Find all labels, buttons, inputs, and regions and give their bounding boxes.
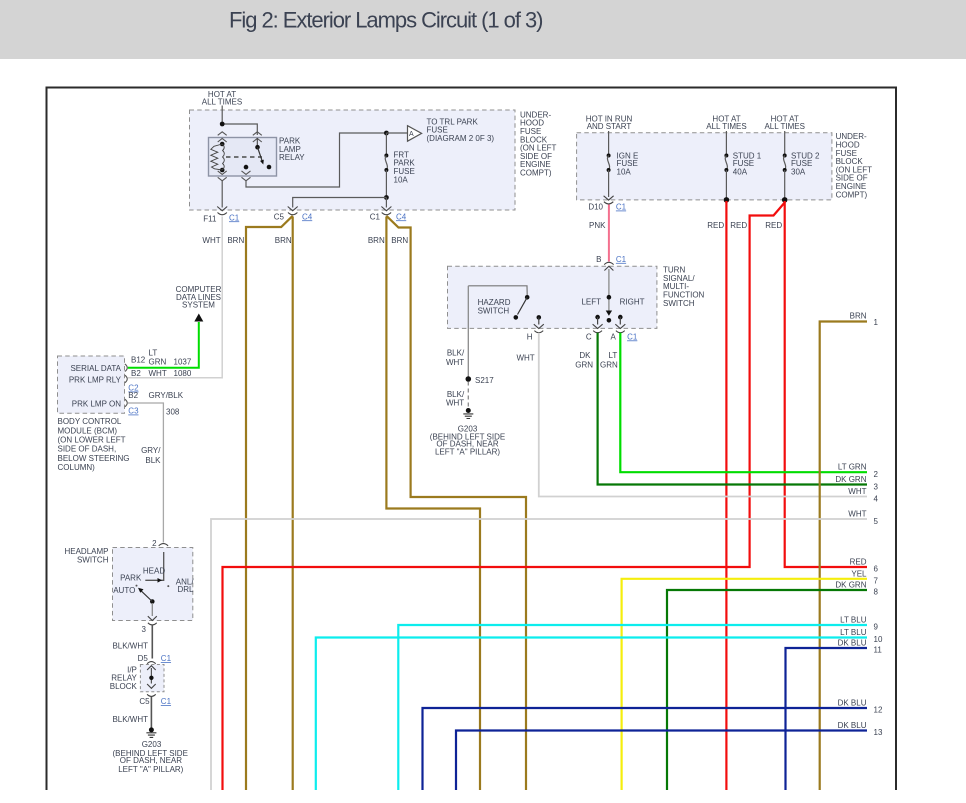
svg-text:40A: 40A [733,168,748,177]
svg-text:WHT: WHT [149,369,167,378]
wire labels WHT BRN BRN BRN BRN [202,236,408,245]
BCM pin PRK LMP ON [72,399,127,408]
svg-text:12: 12 [874,706,883,715]
svg-text:SYSTEM: SYSTEM [182,301,215,310]
connector C A C1 exits [586,331,638,342]
node STUD1 junction [724,197,730,203]
svg-text:DRL: DRL [178,585,195,594]
ground G203 (I/P) [112,727,187,774]
headlamp switch internals [113,552,194,621]
wire WHT H to row 4 [516,333,867,497]
svg-text:PARK: PARK [120,574,142,583]
wire relay output to fuse junction [246,133,386,187]
row 6 label [850,558,879,574]
svg-text:C1: C1 [161,654,172,663]
wire WHT F11 to BCM [128,217,222,378]
wire DK BLU row 13 [456,721,883,790]
svg-text:DK GRN: DK GRN [835,581,866,590]
headlamp switch box [113,548,193,621]
svg-text:DK BLU: DK BLU [838,699,867,708]
svg-text:BLK/WHT: BLK/WHT [112,642,148,651]
svg-text:RED: RED [730,221,747,230]
fuse F2: FRT PARK FUSE 10A [384,133,415,198]
svg-text:COMPT): COMPT) [836,190,868,199]
row 2 label [838,463,879,480]
svg-text:WHT: WHT [202,236,220,245]
wire DK BLU row 11 [786,639,883,791]
svg-text:ALL TIMES: ALL TIMES [202,97,242,106]
svg-text:PRK LMP ON: PRK LMP ON [72,399,121,408]
BCM pin SERIAL DATA [70,364,127,373]
turn signal switch box [448,266,657,328]
svg-text:C1: C1 [616,255,627,264]
svg-text:10A: 10A [394,175,409,184]
svg-text:GRN: GRN [149,358,167,367]
underhood fuse block 2 box [577,133,832,200]
svg-text:BODY CONTROL: BODY CONTROL [58,417,122,426]
svg-text:WHT: WHT [848,487,866,496]
wire hazard common down [446,286,468,379]
wire BLK/WHT dashed to ground [446,382,468,409]
svg-text:1037: 1037 [174,358,192,367]
svg-text:RED: RED [765,221,782,230]
connector C5 C4 exit [274,207,313,222]
svg-text:BRN: BRN [227,236,244,245]
svg-text:LEFT "A" PILLAR): LEFT "A" PILLAR) [435,447,500,456]
svg-text:LEFT: LEFT [581,298,601,307]
relay mechanical link (dashed) [226,156,262,158]
svg-text:(DIAGRAM 2 0F 3): (DIAGRAM 2 0F 3) [427,134,495,143]
svg-text:C4: C4 [302,212,313,221]
svg-text:SERIAL DATA: SERIAL DATA [70,364,121,373]
svg-text:9: 9 [874,623,879,632]
title bar [0,0,966,59]
svg-text:11: 11 [874,646,883,655]
svg-text:D5: D5 [138,654,149,663]
connector C1 C4 exit [370,207,407,222]
connector B C1 entry [596,255,627,265]
label I/P RELAY BLOCK [110,665,138,691]
svg-text:10A: 10A [617,168,632,177]
node junction below FRT PARK FUSE [293,195,389,207]
svg-text:SIDE OF DASH,: SIDE OF DASH, [58,445,117,454]
svg-text:1: 1 [874,318,879,327]
wire RED stud2 branch to row6 left [223,203,785,791]
svg-text:DK: DK [579,351,591,360]
svg-text:3: 3 [142,625,147,634]
wire feed from HOT AT ALL TIMES [220,106,257,136]
svg-text:BLK/: BLK/ [447,348,465,357]
wire DK GRN C to row 3 [575,333,867,485]
relay R1: PARK LAMP RELAY box [209,132,277,181]
svg-text:C3: C3 [128,407,139,416]
relay switch [244,138,272,169]
wire BLK/WHT to I/P relay block [112,626,152,659]
connector D10 C1 exit [588,196,626,212]
svg-text:C5: C5 [274,212,285,221]
connector H exit [527,331,543,342]
svg-text:F11: F11 [203,214,217,223]
wire RED stud1 down [725,201,727,790]
svg-text:B2: B2 [128,391,138,400]
svg-text:AND START: AND START [587,122,632,131]
label PARK LAMP RELAY [279,137,305,163]
wire GRY/BLK from PRK LMP ON [128,403,164,543]
svg-text:RELAY: RELAY [279,153,305,162]
svg-text:4: 4 [874,495,879,504]
I/P relay block box [140,665,164,692]
BCM box [58,356,125,413]
connector F11 C1 exit [203,207,239,224]
svg-text:SWITCH: SWITCH [663,299,695,308]
node STUD2 junction [782,197,788,203]
svg-text:3: 3 [874,483,879,492]
svg-text:RED: RED [707,221,724,230]
wire BLK/WHT to G203 [112,697,151,728]
relay coil [211,142,225,173]
svg-text:WHT: WHT [446,399,464,408]
svg-text:RIGHT: RIGHT [620,298,645,307]
svg-text:AUTO: AUTO [113,586,135,595]
turn signal internals [581,266,644,328]
wire BRN C1 straight then right [386,217,480,791]
label BODY CONTROL MODULE [58,417,130,472]
svg-text:7: 7 [874,576,879,585]
row 4 label [848,487,878,504]
svg-text:1080: 1080 [174,369,192,378]
svg-text:8: 8 [874,588,879,597]
off-page triangle A: TO TRL PARK FUSE [408,117,495,143]
svg-text:LT: LT [609,351,618,360]
connector 2 entry [152,539,168,552]
wire BRN row 1 [820,311,879,790]
svg-text:C1: C1 [616,203,627,212]
svg-text:LT BLU: LT BLU [840,628,867,637]
svg-text:LT GRN: LT GRN [838,463,867,472]
wire LT BLU row 10 [316,628,883,790]
svg-text:6: 6 [874,565,879,574]
wire DK BLU row 12 [423,699,883,791]
BCM pin labels and circuit numbers [128,349,192,417]
svg-text:30A: 30A [791,168,806,177]
svg-text:SWITCH: SWITCH [77,555,109,564]
wire DK GRN row 8 [667,581,879,791]
wire LT BLU row 9 [398,616,878,791]
svg-text:WHT: WHT [848,510,866,519]
wire WHT row 5 [211,510,879,791]
label UNDER-HOOD FUSE BLOCK (right) [836,132,873,199]
svg-text:G203: G203 [142,740,162,749]
svg-text:13: 13 [874,728,883,737]
svg-text:GRY/BLK: GRY/BLK [149,391,184,400]
labels RED RED RED [707,221,782,230]
svg-text:ALL TIMES: ALL TIMES [764,122,804,131]
connector D5 C1 [138,654,172,664]
ground G203 (hazard) [430,408,505,456]
svg-text:COLUMN): COLUMN) [58,463,96,472]
svg-text:BRN: BRN [275,236,292,245]
label COMPUTER DATA LINES SYSTEM [176,285,222,310]
svg-text:DK BLU: DK BLU [838,721,867,730]
svg-text:PRK LMP RLY: PRK LMP RLY [69,376,122,385]
svg-text:HEAD: HEAD [143,567,165,576]
svg-text:A: A [611,332,617,341]
svg-text:GRN: GRN [575,361,593,370]
svg-text:D10: D10 [588,203,603,212]
svg-text:A: A [409,131,414,138]
label UNDER-HOOD FUSE BLOCK (left) [520,110,557,177]
svg-text:YEL: YEL [851,569,867,578]
svg-text:308: 308 [166,408,180,417]
label HEADLAMP SWITCH [64,547,108,564]
svg-text:GRN: GRN [600,361,618,370]
svg-text:BELOW STEERING: BELOW STEERING [58,454,130,463]
svg-text:SWITCH: SWITCH [478,306,510,315]
svg-text:B: B [596,255,601,264]
label HOT AT ALL TIMES (left) [202,90,242,106]
svg-text:PNK: PNK [589,221,606,230]
svg-text:LEFT "A" PILLAR): LEFT "A" PILLAR) [118,765,183,774]
svg-text:2: 2 [874,470,879,479]
wire BRN C5 straight [292,217,294,791]
node S217 splice [466,376,495,385]
svg-text:DK GRN: DK GRN [835,475,866,484]
svg-text:C1: C1 [627,332,638,341]
fuse IGN E FUSE 10A [607,131,639,197]
svg-text:COMPT): COMPT) [520,169,552,178]
BCM pin PRK LMP RLY [69,375,127,384]
svg-text:C5: C5 [139,697,150,706]
svg-text:ALL TIMES: ALL TIMES [706,122,746,131]
connector 3 exit [142,623,157,634]
node junction at FRT PARK FUSE top [384,131,407,136]
svg-text:BLOCK: BLOCK [110,682,138,691]
fuse STUD 1 FUSE 40A [724,131,761,200]
svg-text:BRN: BRN [368,236,385,245]
svg-text:MODULE (BCM): MODULE (BCM) [58,426,118,435]
svg-text:Fig 2: Exterior Lamps Circuit: Fig 2: Exterior Lamps Circuit (1 of 3) [229,8,542,33]
row 3 label [835,475,878,492]
wire LT GRN serial data with arrow [128,314,204,368]
svg-text:H: H [527,332,533,341]
svg-text:C1: C1 [370,213,381,222]
wire LT GRN A to row 2 [600,333,867,472]
wire PNK D10 to turn signal B [589,205,609,262]
svg-text:2: 2 [152,539,157,548]
svg-text:LT BLU: LT BLU [840,616,867,625]
svg-text:B12: B12 [131,356,146,365]
connector C5 C1 [139,694,171,706]
svg-text:5: 5 [874,517,879,526]
svg-text:GRY/: GRY/ [141,446,161,455]
svg-text:C4: C4 [396,212,407,221]
svg-text:WHT: WHT [516,353,534,362]
label TURN SIGNAL/MULTI-FUNCTION SWITCH [663,266,705,308]
svg-text:B2: B2 [131,369,141,378]
svg-text:10: 10 [874,635,883,644]
diagram border frame [47,88,897,791]
wire BRN C5 split left [246,216,293,790]
svg-text:BLK/WHT: BLK/WHT [112,715,148,724]
svg-text:LT: LT [149,349,158,358]
underhood fuse block 1 box [190,110,516,210]
svg-text:RED: RED [850,558,867,567]
labels HOT IN RUN AND START / HOT AT ALL TIMES [586,114,805,131]
svg-text:WHT: WHT [446,358,464,367]
svg-text:S217: S217 [475,376,494,385]
wire YEL row 7 [622,569,879,790]
svg-text:BRN: BRN [850,311,867,320]
svg-text:C1: C1 [161,697,172,706]
svg-text:OF DASH, NEAR: OF DASH, NEAR [120,756,182,765]
wire RED stud2 to row 6 [785,201,867,567]
wire relay coil to F11 [221,181,223,208]
svg-text:BLK: BLK [145,456,161,465]
wire BRN C1 split right [386,216,526,790]
fuse STUD 2 FUSE 30A [783,131,820,200]
svg-text:DK BLU: DK BLU [838,639,867,648]
svg-text:C: C [586,332,592,341]
svg-text:(ON LOWER LEFT: (ON LOWER LEFT [58,435,126,444]
svg-text:C1: C1 [229,213,240,222]
hazard switch internals [468,286,544,329]
svg-text:BRN: BRN [391,236,408,245]
